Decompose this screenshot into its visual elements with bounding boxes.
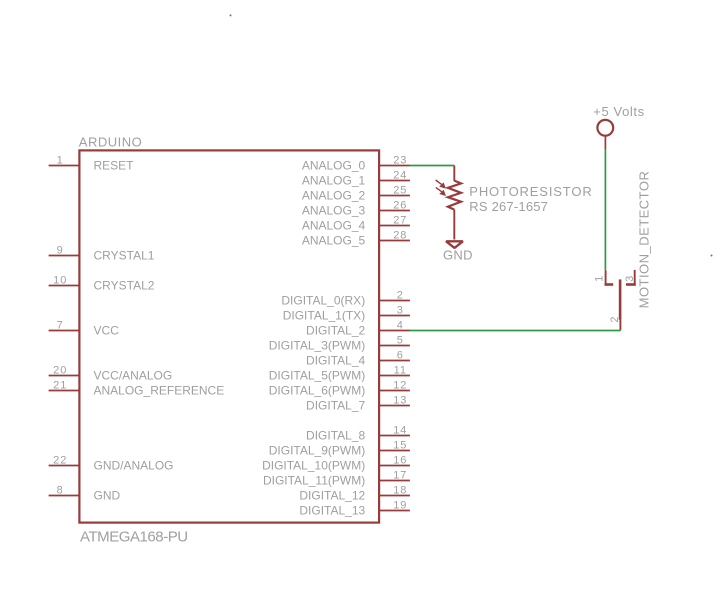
- pin 18 stub (right): [379, 495, 410, 497]
- wire net +5V: supply to connector pin 1: [604, 150, 606, 270]
- svg-text:ANALOG_2: ANALOG_2: [302, 189, 366, 203]
- svg-text:VCC: VCC: [94, 324, 120, 338]
- node stray net dot A (top): [230, 14, 232, 16]
- svg-text:23: 23: [393, 155, 407, 167]
- connector J1 pin 2 lead: [619, 320, 621, 331]
- svg-text:GND/ANALOG: GND/ANALOG: [94, 459, 174, 473]
- svg-text:28: 28: [393, 230, 407, 242]
- svg-text:1: 1: [593, 275, 605, 282]
- pin 15 stub (right): [379, 450, 410, 452]
- ground symbol GND: [446, 241, 463, 248]
- svg-text:DIGITAL_12: DIGITAL_12: [299, 489, 365, 503]
- photoresistor R1 light arrow 1: [436, 180, 446, 189]
- pin 4 stub (right): [379, 330, 410, 332]
- svg-text:27: 27: [393, 215, 407, 227]
- svg-text:5: 5: [397, 335, 404, 347]
- svg-text:ANALOG_5: ANALOG_5: [302, 234, 366, 248]
- svg-text:GND: GND: [94, 489, 121, 503]
- svg-text:CRYSTAL1: CRYSTAL1: [94, 249, 155, 263]
- svg-text:MOTION_DETECTOR: MOTION_DETECTOR: [636, 171, 651, 309]
- connector J1 body bar: [619, 279, 622, 320]
- pin 11 stub (right): [379, 375, 410, 377]
- svg-text:6: 6: [397, 350, 404, 362]
- connector J1 pin 3 foot: [626, 283, 636, 286]
- photoresistor R1 top lead: [453, 166, 455, 182]
- svg-text:8: 8: [57, 485, 64, 497]
- pin 28 stub (right): [379, 240, 410, 242]
- svg-text:ANALOG_0: ANALOG_0: [302, 159, 366, 173]
- node stray net dot B (right): [711, 255, 713, 257]
- svg-text:7: 7: [57, 320, 64, 332]
- svg-text:3: 3: [397, 305, 404, 317]
- svg-text:PHOTORESISTOR: PHOTORESISTOR: [469, 184, 592, 199]
- svg-text:DIGITAL_6(PWM): DIGITAL_6(PWM): [269, 384, 365, 398]
- svg-text:DIGITAL_10(PWM): DIGITAL_10(PWM): [262, 459, 365, 473]
- svg-text:15: 15: [393, 440, 407, 452]
- svg-text:ARDUINO: ARDUINO: [79, 135, 142, 150]
- svg-text:DIGITAL_11(PWM): DIGITAL_11(PWM): [263, 474, 365, 488]
- svg-text:24: 24: [393, 170, 407, 182]
- pin 23 stub (right): [379, 165, 410, 167]
- connector J1 pin 3 lead: [634, 270, 636, 286]
- svg-text:ANALOG_REFERENCE: ANALOG_REFERENCE: [94, 384, 225, 398]
- svg-text:VCC/ANALOG: VCC/ANALOG: [94, 369, 173, 383]
- svg-text:RS 267-1657: RS 267-1657: [469, 199, 548, 214]
- svg-text:9: 9: [57, 245, 64, 257]
- pin 10 stub (left): [49, 285, 80, 287]
- photoresistor R1 light arrow 2: [436, 187, 446, 196]
- svg-text:DIGITAL_7: DIGITAL_7: [306, 399, 365, 413]
- pin 6 stub (right): [379, 360, 410, 362]
- supply +5V stub: [604, 136, 606, 150]
- svg-text:17: 17: [393, 470, 407, 482]
- svg-text:ATMEGA168-PU: ATMEGA168-PU: [80, 529, 188, 546]
- svg-text:16: 16: [393, 455, 407, 467]
- pin 14 stub (right): [379, 435, 410, 437]
- pin 13 stub (right): [379, 405, 410, 407]
- pin 27 stub (right): [379, 225, 410, 227]
- svg-text:1: 1: [57, 155, 64, 167]
- svg-text:CRYSTAL2: CRYSTAL2: [94, 279, 155, 293]
- svg-text:DIGITAL_3(PWM): DIGITAL_3(PWM): [269, 339, 365, 353]
- svg-text:DIGITAL_8: DIGITAL_8: [306, 429, 365, 443]
- pin 16 stub (right): [379, 465, 410, 467]
- svg-text:ANALOG_3: ANALOG_3: [302, 204, 366, 218]
- pin 7 stub (left): [49, 330, 80, 332]
- svg-text:26: 26: [393, 200, 407, 212]
- svg-text:21: 21: [53, 380, 67, 392]
- svg-text:11: 11: [394, 365, 407, 377]
- svg-text:13: 13: [393, 395, 407, 407]
- wire net N$1: pin 23 to photoresistor top: [410, 165, 455, 167]
- svg-text:25: 25: [393, 185, 407, 197]
- pin 1 stub (left): [49, 165, 80, 167]
- pin 9 stub (left): [49, 255, 80, 257]
- svg-text:DIGITAL_0(RX): DIGITAL_0(RX): [281, 294, 365, 308]
- pin 22 stub (left): [49, 465, 80, 467]
- pin 2 stub (right): [379, 300, 410, 302]
- pin 21 stub (left): [49, 390, 80, 392]
- IC U1 ATMEGA168-PU body: [79, 150, 379, 522]
- svg-text:10: 10: [53, 275, 67, 287]
- svg-text:12: 12: [393, 380, 407, 392]
- pin 19 stub (right): [379, 510, 410, 512]
- svg-text:4: 4: [397, 320, 404, 332]
- svg-text:DIGITAL_2: DIGITAL_2: [306, 324, 365, 338]
- svg-text:DIGITAL_9(PWM): DIGITAL_9(PWM): [269, 444, 365, 458]
- svg-text:DIGITAL_5(PWM): DIGITAL_5(PWM): [269, 369, 365, 383]
- svg-text:3: 3: [624, 275, 636, 282]
- svg-text:2: 2: [609, 316, 621, 323]
- svg-text:2: 2: [397, 290, 404, 302]
- pin 20 stub (left): [49, 375, 80, 377]
- pin 24 stub (right): [379, 180, 410, 182]
- svg-text:14: 14: [393, 425, 407, 437]
- svg-text:ANALOG_4: ANALOG_4: [302, 219, 366, 233]
- svg-text:DIGITAL_4: DIGITAL_4: [306, 354, 365, 368]
- supply +5V circle symbol: [597, 120, 613, 136]
- pin 5 stub (right): [379, 345, 410, 347]
- pin 26 stub (right): [379, 210, 410, 212]
- svg-text:18: 18: [393, 485, 407, 497]
- svg-text:DIGITAL_1(TX): DIGITAL_1(TX): [283, 309, 365, 323]
- svg-text:+5 Volts: +5 Volts: [593, 104, 644, 119]
- svg-text:22: 22: [53, 455, 67, 467]
- wire net N$2: pin 4 DIGITAL_2 to connector pin 2: [410, 330, 621, 332]
- svg-text:20: 20: [53, 365, 67, 377]
- svg-text:ANALOG_1: ANALOG_1: [302, 174, 366, 188]
- connector J1 pin 1 lead: [605, 270, 607, 285]
- photoresistor R1 bottom lead: [453, 210, 455, 240]
- svg-text:19: 19: [393, 500, 407, 512]
- pin 8 stub (left): [49, 495, 80, 497]
- pin 25 stub (right): [379, 195, 410, 197]
- svg-text:RESET: RESET: [94, 159, 135, 173]
- photoresistor R1 zigzag body: [448, 181, 461, 210]
- connector J1 pin 1 foot: [605, 283, 614, 286]
- svg-text:DIGITAL_13: DIGITAL_13: [299, 504, 365, 518]
- pin 3 stub (right): [379, 315, 410, 317]
- pin 17 stub (right): [379, 480, 410, 482]
- svg-text:GND: GND: [443, 247, 473, 262]
- pin 12 stub (right): [379, 390, 410, 392]
